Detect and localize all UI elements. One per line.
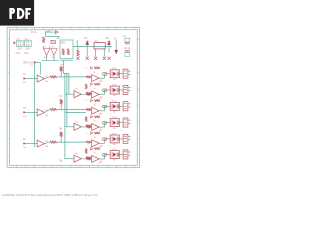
svg-text:100n: 100n <box>25 48 31 51</box>
op-amp U1A <box>37 75 44 82</box>
optocoupler U3C <box>110 102 119 110</box>
resistor R47 top <box>85 117 87 122</box>
diode D60 <box>90 147 93 150</box>
capacitor network C2 <box>25 40 32 46</box>
wire output jog <box>99 142 104 144</box>
wire <box>119 122 123 124</box>
ground <box>107 57 110 60</box>
resistor R24 feedback <box>94 83 100 85</box>
wire <box>45 36 59 38</box>
wire stub <box>128 87 130 89</box>
sheet border inner frame <box>10 30 138 166</box>
capacitor C4 <box>125 51 130 52</box>
resistor R65 input <box>86 157 91 159</box>
capacitor network C1 <box>17 40 24 46</box>
wire <box>60 71 62 77</box>
wire <box>90 141 93 143</box>
svg-text:1k: 1k <box>94 72 96 74</box>
wire <box>103 48 105 56</box>
wire <box>119 73 123 75</box>
op-amp U3A <box>37 109 44 116</box>
wire <box>95 48 97 56</box>
varistor RV1 <box>51 40 55 43</box>
wire <box>44 32 46 37</box>
wire <box>90 158 93 160</box>
svg-text:100n: 100n <box>17 48 23 51</box>
svg-text:10u 10u: 10u 10u <box>124 48 131 50</box>
power arrow down <box>114 50 118 54</box>
svg-text:LM: LM <box>45 81 48 83</box>
resistor R54 feedback <box>94 132 100 134</box>
optocoupler U6C <box>110 151 119 159</box>
wire <box>65 93 74 95</box>
resistor R2 <box>62 49 64 55</box>
op-amp U3B <box>92 107 99 114</box>
node REF junction <box>34 62 36 64</box>
wire output jog <box>99 94 104 96</box>
svg-text:LM: LM <box>45 146 48 148</box>
wire stub <box>128 139 130 141</box>
diode D20 <box>90 83 93 86</box>
wire <box>90 76 93 78</box>
wire <box>45 31 55 33</box>
diode D30 <box>90 99 93 102</box>
ground <box>76 57 79 60</box>
terminal J4 <box>123 118 128 127</box>
wire stub <box>128 106 130 108</box>
resistor R67 top <box>85 148 87 153</box>
ground <box>103 57 106 60</box>
wire <box>90 157 93 159</box>
resistor R66 series <box>103 154 107 157</box>
wire <box>36 61 41 63</box>
svg-text:LM: LM <box>45 115 48 117</box>
wire REF bus <box>34 62 36 147</box>
diode D40 <box>90 116 93 119</box>
resistor R15 input <box>86 76 91 78</box>
terminal J3 <box>123 102 128 111</box>
svg-text:1k: 1k <box>94 137 96 139</box>
resistor R64 feedback <box>94 148 100 150</box>
wire row3 feed <box>65 112 86 114</box>
terminal J6 <box>123 150 128 159</box>
resistor R25 input <box>86 92 91 94</box>
wire stub <box>128 135 130 137</box>
wire <box>65 126 74 128</box>
wire <box>90 109 93 111</box>
resistor R55 input <box>86 141 91 143</box>
optocoupler U1C <box>110 70 119 78</box>
wire <box>119 89 123 91</box>
ground <box>86 57 89 60</box>
resistor R63 inline <box>86 158 91 160</box>
optocoupler U4C <box>110 119 119 127</box>
diode D10 <box>90 67 93 70</box>
resistor R56 series <box>103 138 107 141</box>
PDF badge <box>0 0 34 26</box>
wire bus trunk <box>64 73 66 159</box>
op-amp U4A <box>74 123 81 130</box>
resistor R51 <box>50 141 56 143</box>
svg-text:1k: 1k <box>94 121 96 123</box>
op-amp U2B <box>92 91 99 98</box>
wire <box>25 111 37 113</box>
diode D1 <box>55 31 58 34</box>
wire <box>90 126 93 128</box>
wire <box>119 154 123 156</box>
resistor R34 feedback <box>94 100 100 102</box>
op-amp U6B <box>92 155 99 162</box>
resistor R12 pull-up <box>60 67 62 72</box>
node IN1 <box>23 78 25 80</box>
wire ground bus <box>42 59 59 61</box>
wire stub <box>76 40 78 46</box>
node IN5 <box>23 143 25 145</box>
diode D4 <box>86 41 89 44</box>
op-amp U5B <box>92 140 99 147</box>
resistor R46 series <box>103 122 107 125</box>
op-amp U4B <box>92 124 99 131</box>
resistor R35 input <box>86 109 91 111</box>
svg-text:11/29/2020 10:06 PM F:\New fo: 11/29/2020 10:06 PM F:\New folder\DevCon… <box>2 193 98 197</box>
op-amp U2A <box>74 91 81 98</box>
resistor R52 pull-up <box>60 132 62 137</box>
wire stub <box>128 122 130 124</box>
wire <box>90 125 93 127</box>
wire <box>90 92 93 94</box>
wire rail <box>73 45 112 47</box>
wire stub <box>128 73 130 75</box>
svg-text:RN1: RN1 <box>61 42 66 45</box>
terminal J5 <box>123 134 128 143</box>
wire <box>119 105 123 107</box>
diode D5 <box>107 41 110 44</box>
svg-text:P1-A: P1-A <box>31 31 37 34</box>
diode D3 <box>51 49 57 56</box>
op-amp U6A <box>74 155 81 162</box>
wire output jog <box>99 158 104 160</box>
wire stub <box>128 70 130 72</box>
op-amp U1B <box>92 75 99 82</box>
wire <box>42 46 44 48</box>
wire stub <box>128 154 130 156</box>
node VIN1 <box>13 42 15 44</box>
svg-text:REF 2v5: REF 2v5 <box>24 62 34 65</box>
wire <box>81 158 85 160</box>
wire <box>65 158 74 160</box>
wire stub <box>128 103 130 105</box>
wire output jog <box>99 126 104 128</box>
resistor R1 <box>43 37 45 43</box>
wire <box>45 142 50 144</box>
wire stub <box>128 151 130 153</box>
svg-text:CF2: CF2 <box>24 52 29 55</box>
wire stub <box>128 90 130 92</box>
optocoupler U5C <box>110 135 119 143</box>
node IN3 <box>23 112 25 114</box>
terminal J2 <box>123 85 128 94</box>
resistor R31 <box>50 108 56 110</box>
wire <box>81 126 85 128</box>
optocoupler U2C <box>110 86 119 94</box>
op-amp U5A <box>37 140 44 147</box>
block divider box <box>60 40 73 58</box>
resistor R26 series <box>103 89 107 92</box>
resistor R44 feedback <box>94 116 100 118</box>
ground <box>94 57 97 60</box>
wire <box>25 78 37 80</box>
svg-text:1k: 1k <box>94 88 96 90</box>
resistor R16 series <box>103 73 107 76</box>
wire output jog <box>99 110 104 112</box>
resistor R3 <box>67 49 69 55</box>
wire <box>90 93 93 95</box>
sheet border zone tick marks <box>7 27 139 168</box>
resistor R14 feedback <box>94 67 100 69</box>
diode D2 <box>43 49 49 56</box>
svg-text:CF1: CF1 <box>16 52 21 55</box>
terminal J1 <box>123 69 128 78</box>
wire <box>60 136 62 142</box>
resistor R4 <box>77 50 79 56</box>
svg-text:1k: 1k <box>94 153 96 155</box>
svg-text:1k: 1k <box>94 104 96 106</box>
resistor R27 top <box>85 84 87 89</box>
resistor R45 input <box>86 125 91 127</box>
resistor R23 inline <box>86 94 91 96</box>
sheet border outer frame <box>7 27 139 167</box>
capacitor C3 <box>125 38 130 42</box>
wire <box>25 143 37 145</box>
wire <box>45 77 50 79</box>
relay K1 box <box>94 43 105 49</box>
wire <box>60 104 62 110</box>
diode D50 <box>90 132 93 135</box>
wire <box>115 40 117 50</box>
resistor R36 series <box>103 105 107 108</box>
resistor R11 <box>50 76 56 78</box>
resistor R32 pull-up <box>60 99 62 104</box>
wire output jog <box>99 77 104 79</box>
wire <box>45 110 50 113</box>
wire <box>81 93 85 95</box>
wire stub <box>128 119 130 121</box>
wire <box>63 72 69 74</box>
resistor R43 inline <box>86 126 91 128</box>
wire <box>119 138 123 140</box>
